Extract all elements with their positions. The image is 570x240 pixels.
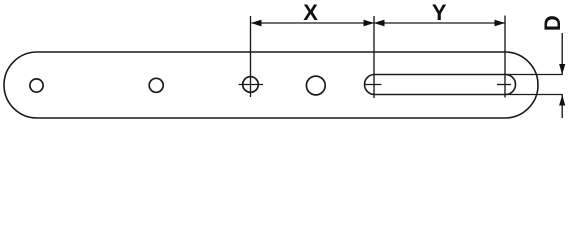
X right arrow [364,20,375,27]
extension line at hole 3 [250,16,252,97]
slot right center mark horizontal [497,84,511,86]
hole 4 [306,76,325,95]
svg-text:Y: Y [432,0,447,25]
svg-text:X: X [303,0,318,25]
hole 2 [149,78,163,92]
hole 3 center mark horizontal [239,84,264,86]
Y dimension line [374,22,505,24]
D dimension line upper segment [561,33,563,74]
Y right arrow [495,20,506,27]
D upper arrow (down) [559,64,565,75]
svg-text:D: D [540,15,565,31]
D top connector line [505,74,563,76]
D bottom connector line [505,94,563,96]
D lower arrow (up) [559,95,565,106]
X left arrow [251,20,262,27]
plate outline [4,52,538,118]
Y left arrow [374,20,385,27]
extension line at slot left center [373,16,375,98]
D dimension line lower segment [561,95,563,118]
slot left center mark horizontal [365,84,382,86]
hole 1 [30,79,43,92]
X dimension line [252,22,375,24]
hole 3 [243,77,259,93]
extension line at slot right center [504,16,506,98]
slot [365,75,516,95]
